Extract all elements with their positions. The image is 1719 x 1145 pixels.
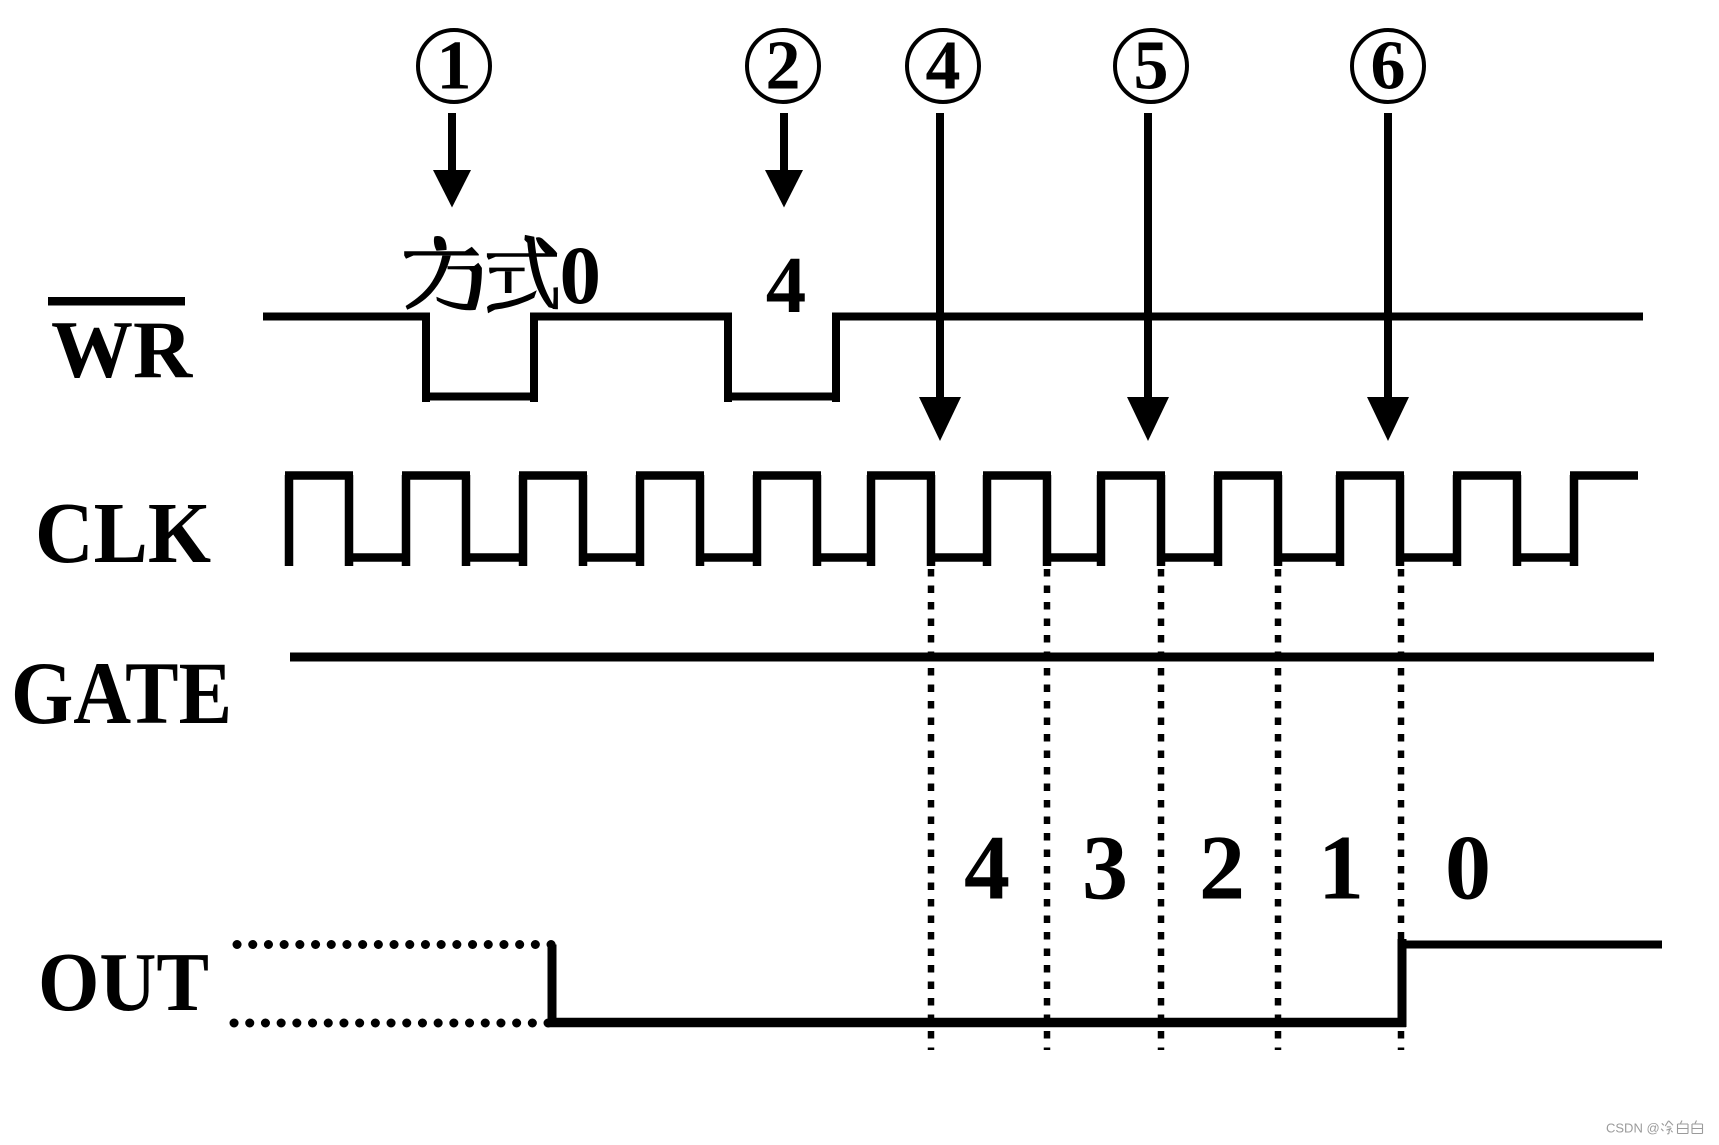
svg-text:GATE: GATE [11, 645, 232, 743]
svg-text:4: 4 [926, 28, 961, 105]
svg-text:6: 6 [1371, 28, 1406, 105]
svg-text:5: 5 [1134, 28, 1169, 105]
svg-text:1: 1 [1318, 817, 1364, 919]
svg-text:3: 3 [1082, 817, 1128, 919]
svg-text:WR: WR [51, 304, 193, 395]
svg-text:0: 0 [1445, 817, 1491, 919]
svg-text:2: 2 [766, 28, 801, 105]
svg-text:4: 4 [964, 817, 1010, 919]
svg-text:OUT: OUT [38, 936, 209, 1029]
svg-text:CSDN @: CSDN @ [1606, 1121, 1660, 1136]
svg-text:1: 1 [437, 28, 472, 105]
svg-text:4: 4 [766, 240, 807, 330]
svg-text:CLK: CLK [35, 484, 211, 581]
svg-text:0: 0 [560, 229, 602, 321]
svg-text:2: 2 [1199, 817, 1245, 919]
